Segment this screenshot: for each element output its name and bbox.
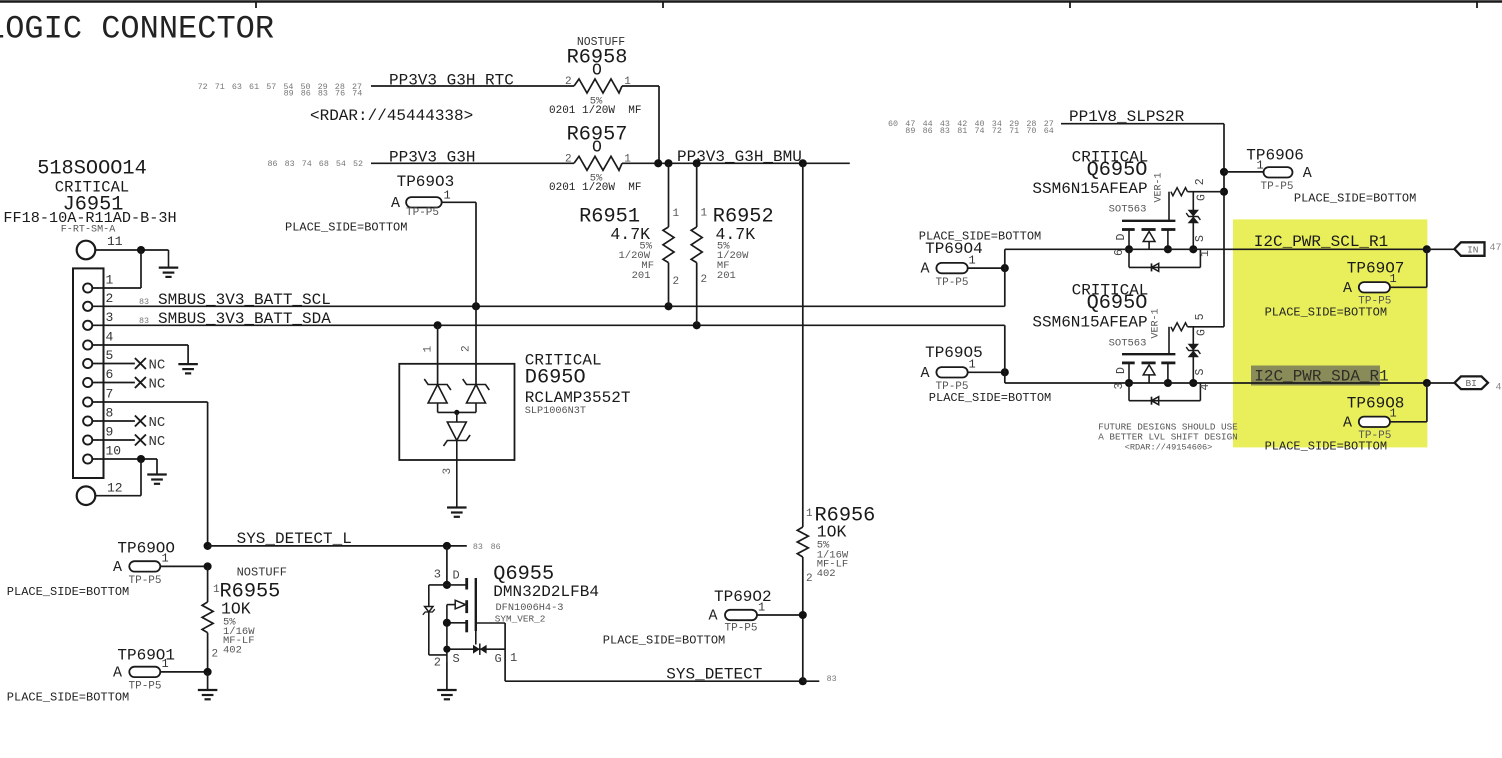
svg-text:402: 402 [817, 568, 836, 580]
svg-text:D: D [1115, 233, 1128, 240]
svg-text:<RDAR://49154606>: <RDAR://49154606> [1125, 442, 1213, 452]
svg-text:A BETTER LVL SHIFT DESIGN: A BETTER LVL SHIFT DESIGN [1098, 432, 1237, 443]
svg-text:2: 2 [565, 76, 572, 88]
svg-text:PLACE_SIDE=BOTTOM: PLACE_SIDE=BOTTOM [285, 220, 407, 234]
svg-text:TP-P5: TP-P5 [936, 277, 969, 289]
svg-text:A: A [1343, 414, 1352, 431]
svg-text:A: A [709, 608, 718, 625]
svg-text:<RDAR://45444338>: <RDAR://45444338> [310, 107, 473, 125]
svg-text:60: 60 [888, 119, 898, 129]
svg-text:71: 71 [215, 82, 225, 92]
svg-text:A: A [113, 665, 122, 682]
svg-text:A: A [921, 261, 930, 278]
svg-text:1: 1 [162, 552, 169, 566]
svg-text:PLACE_SIDE=BOTTOM: PLACE_SIDE=BOTTOM [603, 633, 725, 647]
svg-text:1: 1 [969, 358, 976, 372]
svg-text:72: 72 [198, 82, 208, 92]
svg-text:1: 1 [510, 651, 517, 665]
svg-text:TP-P5: TP-P5 [129, 575, 162, 587]
svg-text:G: G [495, 652, 502, 666]
svg-text:70: 70 [1026, 126, 1036, 136]
svg-text:74: 74 [352, 89, 362, 99]
svg-text:2: 2 [1194, 178, 1207, 185]
svg-text:RCLAMP3552T: RCLAMP3552T [525, 389, 631, 407]
svg-text:83: 83 [139, 297, 149, 307]
svg-text:83: 83 [940, 126, 950, 136]
svg-text:Q695O: Q695O [1087, 292, 1148, 315]
svg-text:IN: IN [1467, 245, 1478, 256]
svg-text:518SOOO14: 518SOOO14 [37, 158, 147, 181]
svg-text:2: 2 [434, 655, 441, 669]
svg-text:SMBUS_3V3_BATT_SCL: SMBUS_3V3_BATT_SCL [158, 291, 331, 309]
svg-text:8: 8 [106, 406, 114, 421]
svg-text:NOSTUFF: NOSTUFF [237, 566, 287, 580]
svg-text:2: 2 [673, 276, 680, 288]
svg-text:83: 83 [285, 159, 295, 169]
svg-text:A: A [1343, 280, 1352, 297]
svg-text:SYS_DETECT_L: SYS_DETECT_L [237, 530, 352, 548]
svg-text:83: 83 [139, 316, 149, 326]
svg-text:PLACE_SIDE=BOTTOM: PLACE_SIDE=BOTTOM [1294, 192, 1416, 206]
svg-text:72: 72 [992, 126, 1002, 136]
svg-text:201: 201 [632, 270, 651, 282]
svg-text:5: 5 [1194, 313, 1207, 320]
svg-text:52: 52 [353, 159, 363, 169]
svg-text:SSM6N15AFEAP: SSM6N15AFEAP [1032, 180, 1147, 198]
svg-text:47: 47 [1490, 243, 1502, 254]
svg-text:SSM6N15AFEAP: SSM6N15AFEAP [1032, 314, 1147, 332]
svg-text:89: 89 [905, 126, 915, 136]
svg-text:SYS_DETECT: SYS_DETECT [666, 666, 762, 684]
svg-text:1: 1 [806, 508, 813, 520]
svg-text:83: 83 [318, 89, 328, 99]
svg-text:9: 9 [106, 425, 114, 440]
svg-text:1: 1 [106, 273, 114, 288]
svg-text:SMBUS_3V3_BATT_SDA: SMBUS_3V3_BATT_SDA [158, 310, 331, 328]
svg-text:3: 3 [106, 310, 114, 325]
svg-text:TP69O6: TP69O6 [1246, 147, 1304, 165]
svg-text:VER-1: VER-1 [1151, 308, 1162, 338]
svg-text:0201 1/20W MF: 0201 1/20W MF [549, 182, 641, 194]
svg-text:64: 64 [1044, 126, 1054, 136]
svg-text:TP-P5: TP-P5 [129, 681, 162, 693]
svg-text:1: 1 [1390, 272, 1397, 286]
svg-text:1: 1 [624, 76, 631, 88]
svg-text:NC: NC [149, 415, 166, 431]
svg-text:NC: NC [149, 434, 166, 450]
svg-text:86: 86 [268, 159, 278, 169]
svg-text:DMN32D2LFB4: DMN32D2LFB4 [493, 583, 599, 601]
svg-text:83: 83 [473, 542, 483, 552]
svg-text:SLP1006N3T: SLP1006N3T [525, 406, 586, 417]
svg-text:A: A [921, 365, 930, 382]
svg-text:86: 86 [491, 542, 501, 552]
svg-text:G: G [1196, 329, 1209, 336]
svg-text:81: 81 [957, 126, 967, 136]
svg-text:A: A [113, 559, 122, 576]
svg-text:54: 54 [336, 159, 346, 169]
svg-text:6: 6 [106, 367, 114, 382]
svg-text:PLACE_SIDE=BOTTOM: PLACE_SIDE=BOTTOM [7, 585, 129, 599]
svg-text:PLACE_SIDE=BOTTOM: PLACE_SIDE=BOTTOM [929, 391, 1051, 405]
svg-text:SYM_VER_2: SYM_VER_2 [495, 613, 546, 624]
svg-text:1: 1 [969, 253, 976, 267]
svg-text:11: 11 [107, 234, 123, 249]
svg-text:76: 76 [335, 89, 345, 99]
svg-text:201: 201 [717, 270, 736, 282]
svg-text:VER-1: VER-1 [1154, 172, 1165, 202]
svg-text:PLACE_SIDE=BOTTOM: PLACE_SIDE=BOTTOM [1265, 306, 1387, 320]
svg-text:61: 61 [249, 82, 259, 92]
svg-text:DFN1006H4-3: DFN1006H4-3 [496, 602, 564, 614]
svg-text:3: 3 [434, 568, 441, 582]
svg-text:1: 1 [1257, 159, 1264, 173]
svg-text:1: 1 [673, 208, 680, 220]
svg-text:1: 1 [758, 601, 765, 615]
svg-text:TP-P5: TP-P5 [725, 623, 758, 635]
svg-text:TP-P5: TP-P5 [406, 207, 439, 219]
svg-text:D: D [1115, 367, 1128, 374]
svg-text:S: S [1194, 235, 1207, 242]
svg-text:BI: BI [1465, 378, 1476, 389]
svg-text:89: 89 [284, 89, 294, 99]
svg-text:PLACE_SIDE=BOTTOM: PLACE_SIDE=BOTTOM [1265, 439, 1387, 453]
svg-text:O: O [592, 138, 602, 157]
svg-text:2: 2 [701, 274, 708, 286]
svg-text:LOGIC CONNECTOR: LOGIC CONNECTOR [0, 11, 274, 48]
svg-text:D695O: D695O [525, 367, 586, 390]
svg-text:2: 2 [565, 153, 572, 165]
svg-text:S: S [1194, 368, 1207, 375]
svg-text:1: 1 [444, 189, 451, 203]
svg-text:Q695O: Q695O [1087, 159, 1148, 182]
svg-text:10: 10 [106, 444, 122, 459]
svg-text:3: 3 [442, 468, 454, 475]
svg-text:PP3V3_G3H_BMU: PP3V3_G3H_BMU [677, 148, 802, 166]
svg-text:4: 4 [1496, 383, 1502, 394]
svg-text:SOT563: SOT563 [1109, 337, 1147, 349]
svg-text:68: 68 [319, 159, 329, 169]
svg-text:SOT563: SOT563 [1109, 204, 1147, 216]
svg-text:1: 1 [423, 346, 435, 353]
svg-text:0201 1/20W MF: 0201 1/20W MF [549, 105, 641, 117]
svg-text:74: 74 [975, 126, 985, 136]
svg-text:TP-P5: TP-P5 [1261, 181, 1294, 193]
svg-text:402: 402 [223, 645, 242, 657]
svg-text:G: G [1196, 194, 1209, 201]
svg-text:86: 86 [301, 89, 311, 99]
svg-text:1: 1 [1390, 407, 1397, 421]
svg-text:2: 2 [106, 291, 114, 306]
svg-text:74: 74 [302, 159, 312, 169]
svg-text:57: 57 [266, 82, 276, 92]
svg-text:A: A [391, 195, 400, 212]
svg-text:86: 86 [923, 126, 933, 136]
svg-text:S: S [453, 652, 460, 666]
svg-text:83: 83 [827, 674, 837, 684]
svg-text:D: D [453, 569, 460, 583]
svg-text:2: 2 [806, 573, 813, 585]
svg-text:5: 5 [106, 348, 114, 363]
svg-text:O: O [592, 61, 602, 80]
svg-text:12: 12 [107, 481, 123, 496]
svg-text:I2C_PWR_SCL_R1: I2C_PWR_SCL_R1 [1254, 233, 1388, 251]
svg-text:NC: NC [149, 377, 166, 393]
svg-text:1: 1 [624, 153, 631, 165]
svg-text:2: 2 [212, 649, 219, 661]
svg-text:NC: NC [149, 358, 166, 374]
svg-text:63: 63 [232, 82, 242, 92]
svg-text:1: 1 [162, 657, 169, 671]
svg-text:2: 2 [461, 345, 473, 352]
svg-text:PLACE_SIDE=BOTTOM: PLACE_SIDE=BOTTOM [7, 691, 129, 705]
svg-text:71: 71 [1009, 126, 1019, 136]
svg-text:4: 4 [1199, 383, 1212, 390]
svg-text:1: 1 [1199, 250, 1212, 257]
svg-text:A: A [1303, 165, 1312, 182]
svg-text:4: 4 [106, 330, 114, 345]
svg-text:7: 7 [106, 387, 114, 402]
svg-text:1: 1 [701, 208, 708, 220]
